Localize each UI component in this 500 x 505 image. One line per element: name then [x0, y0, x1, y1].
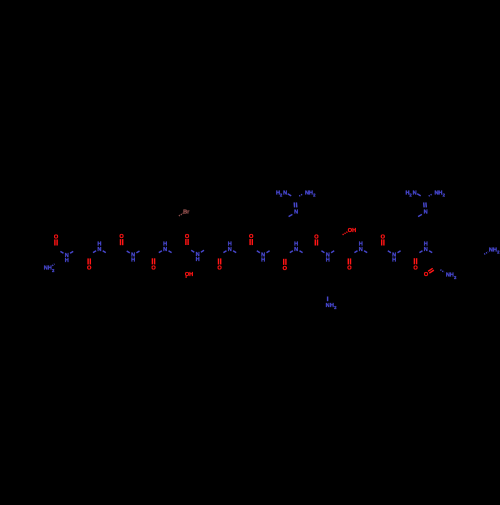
- amide N3-H (H below): [127, 251, 140, 264]
- guanidinium G2 (Arg2): C=N imine: [418, 202, 428, 216]
- amide N11-H (H below): [388, 251, 401, 264]
- svg-text:O: O: [283, 266, 288, 272]
- carbonyl O2 (C=O down): [87, 258, 92, 271]
- carbonyl O9 (C=O up): [314, 234, 319, 245]
- N-terminal amine NH2: [44, 264, 55, 273]
- svg-text:O: O: [413, 265, 418, 271]
- svg-text:N: N: [424, 210, 428, 216]
- amide N6-H (H above): [223, 242, 236, 253]
- carbonyl O8 (C=O down): [283, 259, 288, 272]
- amide N4-H (H above): [159, 242, 172, 253]
- svg-text:H: H: [97, 242, 101, 248]
- bromine Br on phenyl ring: [179, 209, 190, 216]
- svg-text:N: N: [413, 190, 417, 196]
- amide N8-H (H above): [290, 242, 303, 253]
- amide N2-H (H above): [93, 242, 106, 253]
- right side-chain amine NH2: [484, 248, 500, 255]
- svg-text:N: N: [228, 247, 232, 253]
- carbonyl O12 (C=O down): [413, 258, 418, 271]
- svg-text:N: N: [424, 247, 428, 253]
- guanidinium G2 (Arg2): NH2 label: [429, 190, 446, 197]
- amide N12-H (H above): [419, 242, 432, 253]
- C-terminal amide C(=O)NH2 : O label: [424, 268, 434, 278]
- carbonyl O1 (C=O up): [54, 234, 59, 245]
- svg-text:H: H: [163, 242, 167, 248]
- svg-text:H: H: [189, 272, 193, 278]
- svg-text:N: N: [97, 247, 101, 253]
- carbonyl O6 (C=O down): [217, 258, 222, 271]
- guanidinium G2 (Arg2): H2N label: [405, 190, 420, 197]
- svg-text:O: O: [87, 266, 92, 272]
- svg-text:H: H: [359, 242, 363, 248]
- svg-text:H: H: [392, 258, 396, 264]
- carbonyl O5 (C=O up): [185, 234, 190, 245]
- carbonyl O10 (C=O down): [347, 258, 352, 271]
- svg-text:H: H: [352, 228, 356, 234]
- serine side-chain OH: [185, 272, 193, 278]
- svg-text:N: N: [283, 190, 287, 196]
- C-terminal amide NH2: [440, 270, 457, 280]
- threonine side-chain OH: [343, 228, 357, 235]
- svg-text:O: O: [217, 266, 222, 272]
- svg-text:N: N: [359, 247, 363, 253]
- svg-text:H: H: [196, 257, 200, 263]
- svg-text:H: H: [65, 258, 69, 264]
- svg-text:O: O: [151, 266, 156, 272]
- carbonyl O3 (C=O up): [119, 234, 124, 245]
- svg-text:H: H: [228, 242, 232, 248]
- svg-text:O: O: [424, 272, 429, 278]
- amide N9-H (H below): [321, 251, 334, 264]
- amide N1-H (H below): [60, 251, 73, 264]
- amide N7-H (H below): [257, 251, 270, 264]
- svg-text:H: H: [131, 258, 135, 264]
- lysine side-chain NH2: [326, 297, 337, 311]
- svg-text:H: H: [326, 258, 330, 264]
- svg-text:N: N: [294, 247, 298, 253]
- svg-text:N: N: [294, 210, 298, 216]
- svg-text:H: H: [424, 242, 428, 248]
- guanidinium G1 (Arg1): NH2 label: [299, 190, 316, 197]
- svg-text:N: N: [163, 247, 167, 253]
- amide N5-H (H below): [191, 250, 204, 263]
- guanidinium G1 (Arg1): C=N imine: [289, 202, 299, 216]
- svg-text:O: O: [347, 266, 352, 272]
- svg-text:H: H: [261, 258, 265, 264]
- amide N10-H (H above): [354, 242, 367, 253]
- guanidinium G1 (Arg1): H2N label: [276, 190, 291, 197]
- carbonyl O11 (C=O up): [381, 234, 386, 245]
- carbonyl O7 (C=O up): [249, 234, 254, 245]
- svg-text:H: H: [294, 242, 298, 248]
- carbonyl O4 (C=O down): [151, 258, 156, 271]
- svg-text:Br: Br: [183, 209, 190, 215]
